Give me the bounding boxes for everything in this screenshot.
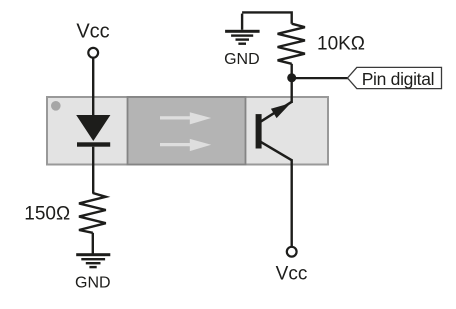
- wire resistor R2 to node: [291, 64, 293, 78]
- svg-text:Vcc: Vcc: [276, 264, 308, 285]
- node junction dot: [287, 73, 296, 82]
- svg-text:Pin digital: Pin digital: [362, 69, 435, 89]
- wire ground stub (top): [241, 14, 243, 30]
- wire LED cathode to resistor R1: [92, 147, 94, 194]
- svg-text:Vcc: Vcc: [76, 20, 109, 42]
- pin-1 dot: [51, 101, 61, 111]
- LED D1 cathode bar: [77, 142, 110, 146]
- wire phototransistor collector to Vcc terminal: [291, 159, 293, 246]
- terminal Vcc (top left): [88, 48, 98, 58]
- svg-text:GND: GND: [224, 51, 260, 68]
- svg-text:150Ω: 150Ω: [24, 204, 70, 225]
- svg-text:GND: GND: [75, 275, 111, 292]
- phototransistor Q1 emitter line: [261, 102, 292, 122]
- resistor R1 150ohm zigzag: [79, 193, 106, 233]
- ground (top): [225, 30, 260, 45]
- light arrow 2: [160, 139, 211, 151]
- wire resistor R1 to ground: [92, 233, 94, 254]
- light arrow 1: [160, 112, 211, 124]
- resistor R2 10Kohm zigzag: [278, 24, 305, 64]
- svg-text:10KΩ: 10KΩ: [317, 34, 365, 55]
- Pin digital flag: [348, 67, 442, 88]
- wire node to Pin digital flag: [292, 77, 348, 79]
- phototransistor Q1 emitter arrowhead: [271, 103, 291, 118]
- optocoupler U1 body: [47, 97, 328, 165]
- phototransistor Q1 base bar: [256, 114, 262, 148]
- wire top horizontal GND to R2: [242, 12, 292, 23]
- phototransistor Q1 collector line: [261, 142, 292, 160]
- wire Vcc terminal to LED anode: [92, 58, 94, 116]
- terminal Vcc (bottom right): [287, 247, 297, 257]
- ground (bottom left): [76, 253, 110, 268]
- LED D1 (triangle): [76, 115, 110, 141]
- wire node to phototransistor emitter: [291, 78, 293, 103]
- optocoupler isolation barrier (middle section): [128, 97, 246, 165]
